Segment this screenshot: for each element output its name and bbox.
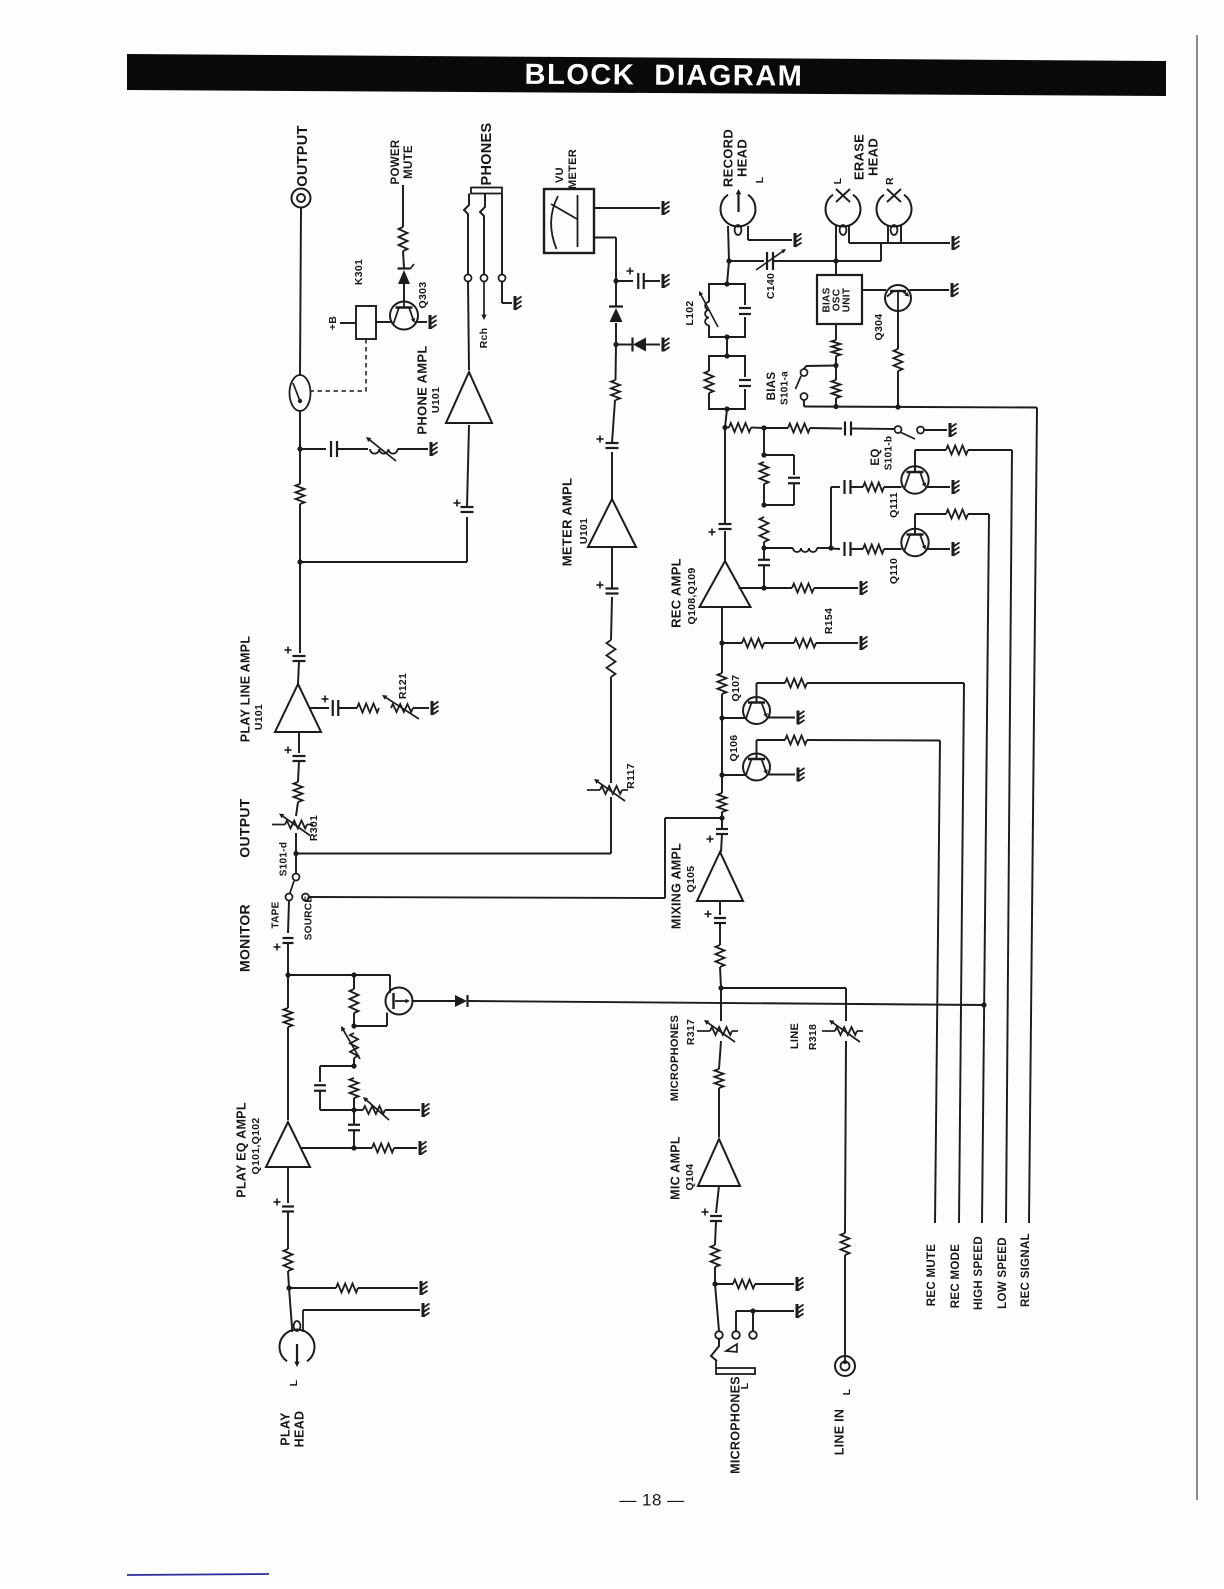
resistor (REC MUTE feed) xyxy=(785,736,807,745)
wire node C to switch xyxy=(295,854,297,874)
wire head node down xyxy=(727,261,729,284)
wire xyxy=(851,548,863,550)
wire erase L left leg xyxy=(835,226,837,261)
wire Q106 collector xyxy=(756,740,758,759)
svg-text:OUTPUT: OUTPUT xyxy=(295,125,311,186)
svg-text:MICROPHONES: MICROPHONES xyxy=(669,1015,681,1101)
wire monitor line xyxy=(296,853,611,855)
wire output jack to switch xyxy=(300,208,301,376)
svg-text:HEAD: HEAD xyxy=(292,1411,306,1448)
wire R117 stem xyxy=(610,797,612,854)
wire node D up xyxy=(615,323,617,345)
wire node A right xyxy=(300,448,326,450)
resistor (bias 1) xyxy=(832,340,841,356)
wire HIGH SPEED line xyxy=(982,514,989,1223)
phones contact 1 xyxy=(465,275,472,282)
wire FET drain xyxy=(413,1000,456,1002)
wire box to node xyxy=(835,261,837,275)
diode (mute feed) xyxy=(455,995,467,1007)
resistor (EQ fb) xyxy=(350,989,359,1013)
svg-text:OUTPUT: OUTPUT xyxy=(237,798,253,857)
diode (power mute) xyxy=(398,270,410,284)
switch S101-d tape contact xyxy=(286,894,293,901)
svg-text:REC MODE: REC MODE xyxy=(950,1244,962,1308)
wire xyxy=(725,409,727,428)
op-amp REC AMPL Q108,Q109 xyxy=(700,561,751,607)
svg-text:R301: R301 xyxy=(308,815,320,841)
ground (VU diode) xyxy=(662,338,665,352)
erase head L xyxy=(826,195,861,227)
wire xyxy=(835,356,837,366)
jack LINE IN xyxy=(835,1356,855,1376)
svg-text:REC SIGNAL: REC SIGNAL xyxy=(1020,1233,1032,1307)
wire meter amp out xyxy=(611,452,613,499)
mic jack tip contact xyxy=(711,1339,719,1361)
wire xyxy=(287,944,289,976)
wire xyxy=(924,429,947,431)
capacitor (+) mic in xyxy=(710,1215,722,1217)
wire xyxy=(763,548,765,560)
svg-text:R154: R154 xyxy=(823,608,835,634)
wire xyxy=(720,967,721,988)
mic jack sleeve xyxy=(716,1368,755,1374)
svg-text:METER: METER xyxy=(567,149,579,189)
resistor xyxy=(716,945,725,967)
wire xyxy=(403,251,404,268)
wire Q304 base xyxy=(862,289,886,291)
node W xyxy=(761,545,766,550)
wire Q107 collector xyxy=(756,683,758,703)
dashed link K301 to switch xyxy=(311,339,366,391)
transistor Q107 xyxy=(743,697,770,724)
switch S101-d contact xyxy=(293,874,300,881)
wire K301 to Q303 xyxy=(376,321,392,323)
op-amp PHONE AMPL U101 xyxy=(446,372,492,423)
ground (Q303) xyxy=(429,315,432,329)
op-amp PLAY EQ AMPL Q101,Q102 xyxy=(266,1122,310,1167)
capacitor (+) R121 row xyxy=(332,700,334,716)
wire upper eq row xyxy=(831,486,840,488)
wire C140 row xyxy=(729,260,764,262)
node L xyxy=(286,1285,291,1290)
svg-text:Q107: Q107 xyxy=(730,675,742,702)
wire play line amp in xyxy=(298,732,300,753)
capacitor (eq low) xyxy=(843,542,845,556)
svg-text:PHONES: PHONES xyxy=(479,122,495,185)
svg-text:POWER: POWER xyxy=(390,139,402,184)
ground (mic row 1) xyxy=(796,1277,799,1291)
wire xyxy=(793,484,795,506)
switch S101-d blade xyxy=(290,881,294,893)
resistor (row) xyxy=(742,639,764,648)
wire long mute line xyxy=(468,1001,985,1005)
wire xyxy=(468,282,469,371)
svg-text:L102: L102 xyxy=(684,300,696,325)
wire erase heads ground row xyxy=(848,226,850,243)
wire xyxy=(763,542,765,548)
transistor Q303 xyxy=(390,302,418,330)
wire R154 row xyxy=(722,642,742,644)
wire switch top xyxy=(804,366,806,369)
node S xyxy=(722,425,727,430)
resistor (row 1) xyxy=(729,423,751,432)
wire to FET xyxy=(389,975,391,993)
wire to Q106 xyxy=(722,774,745,776)
wire xyxy=(884,548,902,550)
wire xyxy=(611,547,613,588)
wire xyxy=(844,1255,846,1356)
capacitor (+) tape xyxy=(283,937,294,939)
phones contact 3 xyxy=(499,275,506,282)
svg-text:TAPE: TAPE xyxy=(271,901,282,928)
svg-text:R318: R318 xyxy=(807,1024,819,1050)
wire eq switch row xyxy=(725,427,729,429)
tank circuit 2 outline xyxy=(709,356,745,377)
ground (rec side) xyxy=(860,581,863,595)
node G xyxy=(351,972,356,977)
variable resistor R317 xyxy=(710,1027,732,1035)
wire mixing in xyxy=(719,901,721,915)
wire xyxy=(835,366,837,381)
wire xyxy=(358,1287,418,1289)
capacitor (output) xyxy=(330,441,332,457)
node I xyxy=(351,1063,356,1068)
node AC xyxy=(726,258,731,263)
resistor (tank 2) xyxy=(705,371,714,393)
wire xyxy=(296,802,298,816)
wire rec amp side tap xyxy=(739,587,793,589)
svg-text:REC MUTE: REC MUTE xyxy=(926,1244,938,1306)
capacitor (+) VU xyxy=(637,273,639,289)
node A xyxy=(297,446,302,451)
wire xyxy=(353,1013,355,1026)
node Z xyxy=(895,404,900,409)
svg-text:UNIT: UNIT xyxy=(842,288,853,313)
node X xyxy=(828,545,833,550)
svg-text:BIAS: BIAS xyxy=(766,372,778,401)
page edge line xyxy=(1196,35,1198,1500)
svg-text:HIGH SPEED: HIGH SPEED xyxy=(973,1236,985,1310)
wire xyxy=(339,707,358,709)
node V xyxy=(761,502,766,507)
svg-text:+B: +B xyxy=(327,316,339,330)
svg-text:PLAY LINE AMPL: PLAY LINE AMPL xyxy=(238,636,252,743)
arrow L102 xyxy=(700,294,718,327)
resistor (mic chain) xyxy=(715,1069,724,1088)
ground (erase heads) xyxy=(952,236,955,250)
wire diode branch xyxy=(616,344,632,346)
node U xyxy=(761,452,766,457)
resistor (HIGH SPEED feed) xyxy=(946,510,968,519)
wire source line xyxy=(309,897,665,898)
transistor Q110 xyxy=(901,529,928,556)
resistor (eq high) xyxy=(863,483,884,492)
svg-text:BLOCK DIAGRAM: BLOCK DIAGRAM xyxy=(525,59,804,93)
tank circuit L102 outline xyxy=(709,284,745,305)
svg-text:C140: C140 xyxy=(765,273,777,299)
blue pen mark xyxy=(127,1574,269,1575)
wire xyxy=(751,427,764,430)
wire xyxy=(501,282,503,304)
svg-text:L: L xyxy=(288,1379,300,1386)
wire node E to VU meter xyxy=(615,238,617,282)
node O xyxy=(719,772,724,777)
switch S101-b contact 2 xyxy=(917,427,924,434)
node R xyxy=(761,585,766,590)
wire xyxy=(615,281,617,306)
svg-text:MIXING AMPL: MIXING AMPL xyxy=(669,843,683,929)
capacitor (+) below mixing xyxy=(714,917,726,919)
node T xyxy=(761,425,766,430)
wire Rch arrow xyxy=(483,282,485,317)
wire xyxy=(845,1041,846,1233)
transistor Q106 xyxy=(743,754,770,781)
wire node O up xyxy=(721,718,723,775)
wire xyxy=(385,1109,420,1111)
svg-text:U101: U101 xyxy=(430,387,442,413)
op-amp METER AMPL U101 xyxy=(588,499,636,547)
svg-text:PLAY EQ AMPL: PLAY EQ AMPL xyxy=(234,1102,248,1198)
svg-text:Q101,Q102: Q101,Q102 xyxy=(250,1118,262,1175)
wire R117 up xyxy=(610,677,612,783)
svg-text:Q104: Q104 xyxy=(684,1164,696,1191)
op-amp MIC AMPL Q104 xyxy=(698,1139,740,1186)
svg-text:L: L xyxy=(832,177,844,184)
wire xyxy=(884,486,902,488)
node Y xyxy=(833,404,838,409)
capacitor (EQ fb) xyxy=(314,1084,326,1086)
ground (play EQ out) xyxy=(419,1141,422,1155)
node AG xyxy=(724,406,729,411)
resistor (fb 2) xyxy=(760,517,769,542)
svg-text:U101: U101 xyxy=(578,518,590,544)
wire xyxy=(394,1147,417,1149)
capacitor (eq switch) xyxy=(844,422,846,436)
wire xyxy=(615,346,618,380)
switch S101-d source contact xyxy=(302,894,309,901)
wire xyxy=(763,428,765,455)
svg-text:S101-a: S101-a xyxy=(780,371,791,405)
resistor (VU chain) xyxy=(611,380,620,400)
svg-text:MONITOR: MONITOR xyxy=(237,904,253,972)
wire xyxy=(338,448,369,450)
resistor (play EQ out) xyxy=(372,1144,394,1153)
wire Q107 emitter xyxy=(767,717,795,719)
resistor (row 2) xyxy=(788,424,810,433)
capacitor (+) play EQ in xyxy=(282,1205,294,1207)
resistor (play head) xyxy=(284,1249,293,1271)
capacitor C140 (variable) xyxy=(766,252,768,270)
phones ring wire xyxy=(480,194,485,275)
svg-text:S101-d: S101-d xyxy=(279,842,290,877)
wire node G down xyxy=(353,975,355,989)
svg-text:Q111: Q111 xyxy=(888,492,900,518)
wire xyxy=(897,371,899,407)
variable resistor R301 xyxy=(285,821,307,829)
ground (Q107) xyxy=(797,711,800,725)
jack OUTPUT xyxy=(292,189,311,208)
wire Q111 collector xyxy=(914,450,916,472)
variable resistor R117 xyxy=(600,786,622,794)
microphone jack contact 2 xyxy=(732,1331,740,1339)
ground (S101-b) xyxy=(949,423,952,437)
ground (VU cap) xyxy=(662,274,665,288)
resistor (rec side) xyxy=(792,584,814,593)
svg-text:— 18 —: — 18 — xyxy=(619,1490,684,1509)
wire to REC AMPL xyxy=(721,607,723,643)
wire tape line xyxy=(288,901,289,933)
capacitor (fb) xyxy=(788,477,800,479)
capacitor (+) meter amp in xyxy=(606,587,619,589)
transistor Q103 (mute FET) xyxy=(386,988,413,1015)
svg-text:EQ: EQ xyxy=(870,448,882,465)
op-amp PLAY LINE AMPL U101 xyxy=(275,684,321,732)
wire lower eq row xyxy=(831,548,840,551)
wire to REC MUTE line xyxy=(807,739,940,742)
node M xyxy=(981,1002,986,1007)
switch S101-a contact 1 xyxy=(801,369,808,376)
capacitor (tank 1) xyxy=(739,307,751,309)
phones jack sleeve xyxy=(471,188,502,194)
wire xyxy=(851,486,863,488)
wire play line amp tap xyxy=(310,707,329,709)
wire xyxy=(720,988,722,1021)
wire node F down xyxy=(287,975,289,1008)
switch S101-a contact 2 xyxy=(801,393,808,400)
wire Q106 emitter xyxy=(767,774,795,776)
resistor (LOW SPEED feed) xyxy=(946,446,968,455)
svg-text:Q105: Q105 xyxy=(685,866,697,893)
wire xyxy=(755,1283,794,1285)
wire xyxy=(764,642,794,644)
svg-text:Rch: Rch xyxy=(478,328,490,349)
wire Q304 collector xyxy=(897,311,899,349)
node AA xyxy=(833,363,838,368)
svg-text:L: L xyxy=(754,176,766,183)
relay contact switch (output mute) xyxy=(290,375,311,411)
capacitor below node J xyxy=(348,1124,360,1126)
wire xyxy=(810,427,842,430)
ground (Q304) xyxy=(951,283,954,297)
transistor Q111 xyxy=(901,466,928,493)
svg-text:HEAD: HEAD xyxy=(865,138,880,176)
resistor (play EQ) xyxy=(284,1008,293,1027)
variable resistor (EQ fb) xyxy=(350,1033,358,1058)
node J xyxy=(351,1107,356,1112)
wire coil row xyxy=(764,547,793,549)
wire xyxy=(612,400,615,443)
wire xyxy=(288,1271,289,1288)
svg-text:METER AMPL: METER AMPL xyxy=(559,478,574,566)
wire cap to play line amp apex xyxy=(298,661,299,684)
ground (Q110) xyxy=(952,542,955,556)
ground (EQ trim) xyxy=(422,1103,425,1117)
relay K301 xyxy=(356,306,376,339)
wire to node B xyxy=(299,504,301,562)
wire xyxy=(817,547,831,549)
mic jack ring contact xyxy=(726,1344,737,1352)
svg-text:MICROPHONES: MICROPHONES xyxy=(728,1376,742,1474)
wire mic amp in xyxy=(716,1186,719,1213)
phones contact 2 xyxy=(481,275,488,282)
wire mic row 2 xyxy=(735,1311,737,1331)
diode (VU, left) xyxy=(633,338,646,352)
wire R301 to node C xyxy=(295,833,297,854)
wire xyxy=(287,1212,289,1250)
svg-text:Q110: Q110 xyxy=(888,558,900,584)
resistor xyxy=(294,782,303,802)
svg-text:U101: U101 xyxy=(253,704,265,730)
wire play EQ out row xyxy=(300,1147,354,1149)
svg-text:PHONE AMPL: PHONE AMPL xyxy=(414,345,429,434)
wire node J to cap xyxy=(353,1110,355,1125)
wire play EQ in xyxy=(287,1167,289,1203)
node AB xyxy=(833,258,838,263)
resistor (bias 2) xyxy=(832,380,841,398)
wire xyxy=(852,428,895,431)
wire Q110 emitter xyxy=(926,548,950,550)
node H xyxy=(351,1023,356,1028)
wire xyxy=(353,1098,355,1110)
wire xyxy=(774,260,836,262)
play head L xyxy=(280,1329,315,1361)
wire RC left branch xyxy=(320,1065,354,1067)
microphone jack contact 1 xyxy=(715,1331,723,1339)
wire xyxy=(715,1221,716,1245)
wire xyxy=(721,818,723,829)
switch S101-b blade xyxy=(901,433,915,440)
wire rec amp out xyxy=(724,531,726,561)
wire var res branch xyxy=(354,1109,363,1111)
wire cap to phone amp apex xyxy=(467,425,469,507)
svg-text:Q304: Q304 xyxy=(873,314,885,341)
VU METER box xyxy=(544,189,594,253)
node Q xyxy=(719,640,724,645)
ground (Q111) xyxy=(952,480,955,494)
svg-text:HEAD: HEAD xyxy=(734,139,749,177)
ground (Q106) xyxy=(797,768,800,782)
svg-text:LOW SPEED: LOW SPEED xyxy=(997,1237,1009,1309)
capacitor C (phone amp in) + xyxy=(461,506,474,508)
microphone jack contact 3 xyxy=(749,1331,757,1339)
wire node B to phone amp xyxy=(300,561,467,563)
wire node B down xyxy=(299,562,301,653)
wire record head right leg xyxy=(747,226,749,240)
wire switch to node A xyxy=(299,411,301,449)
wire Q304 emitter xyxy=(910,289,950,291)
ground (mic row 2) xyxy=(796,1304,799,1318)
resistor above node N xyxy=(718,793,727,812)
node AE xyxy=(724,334,729,339)
capacitor (+) rec amp out xyxy=(719,523,732,525)
svg-text:Q108,Q109: Q108,Q109 xyxy=(686,568,698,625)
capacitor (eq high) xyxy=(843,480,845,494)
svg-text:MUTE: MUTE xyxy=(403,145,415,179)
capacitor (+) play line amp out xyxy=(293,655,306,657)
ground (R154) xyxy=(860,636,863,650)
ground (head row 1) xyxy=(420,1281,423,1295)
node K xyxy=(351,1145,356,1150)
switch S101-b contact 1 xyxy=(895,426,902,433)
title bar xyxy=(127,54,1166,96)
wire xyxy=(726,337,728,356)
wire xyxy=(646,344,660,346)
capacitor (tank 2) xyxy=(739,379,751,381)
ground (VU top) xyxy=(662,201,665,215)
node E xyxy=(613,278,618,283)
node F xyxy=(285,972,290,977)
svg-text:R317: R317 xyxy=(685,1019,697,1045)
